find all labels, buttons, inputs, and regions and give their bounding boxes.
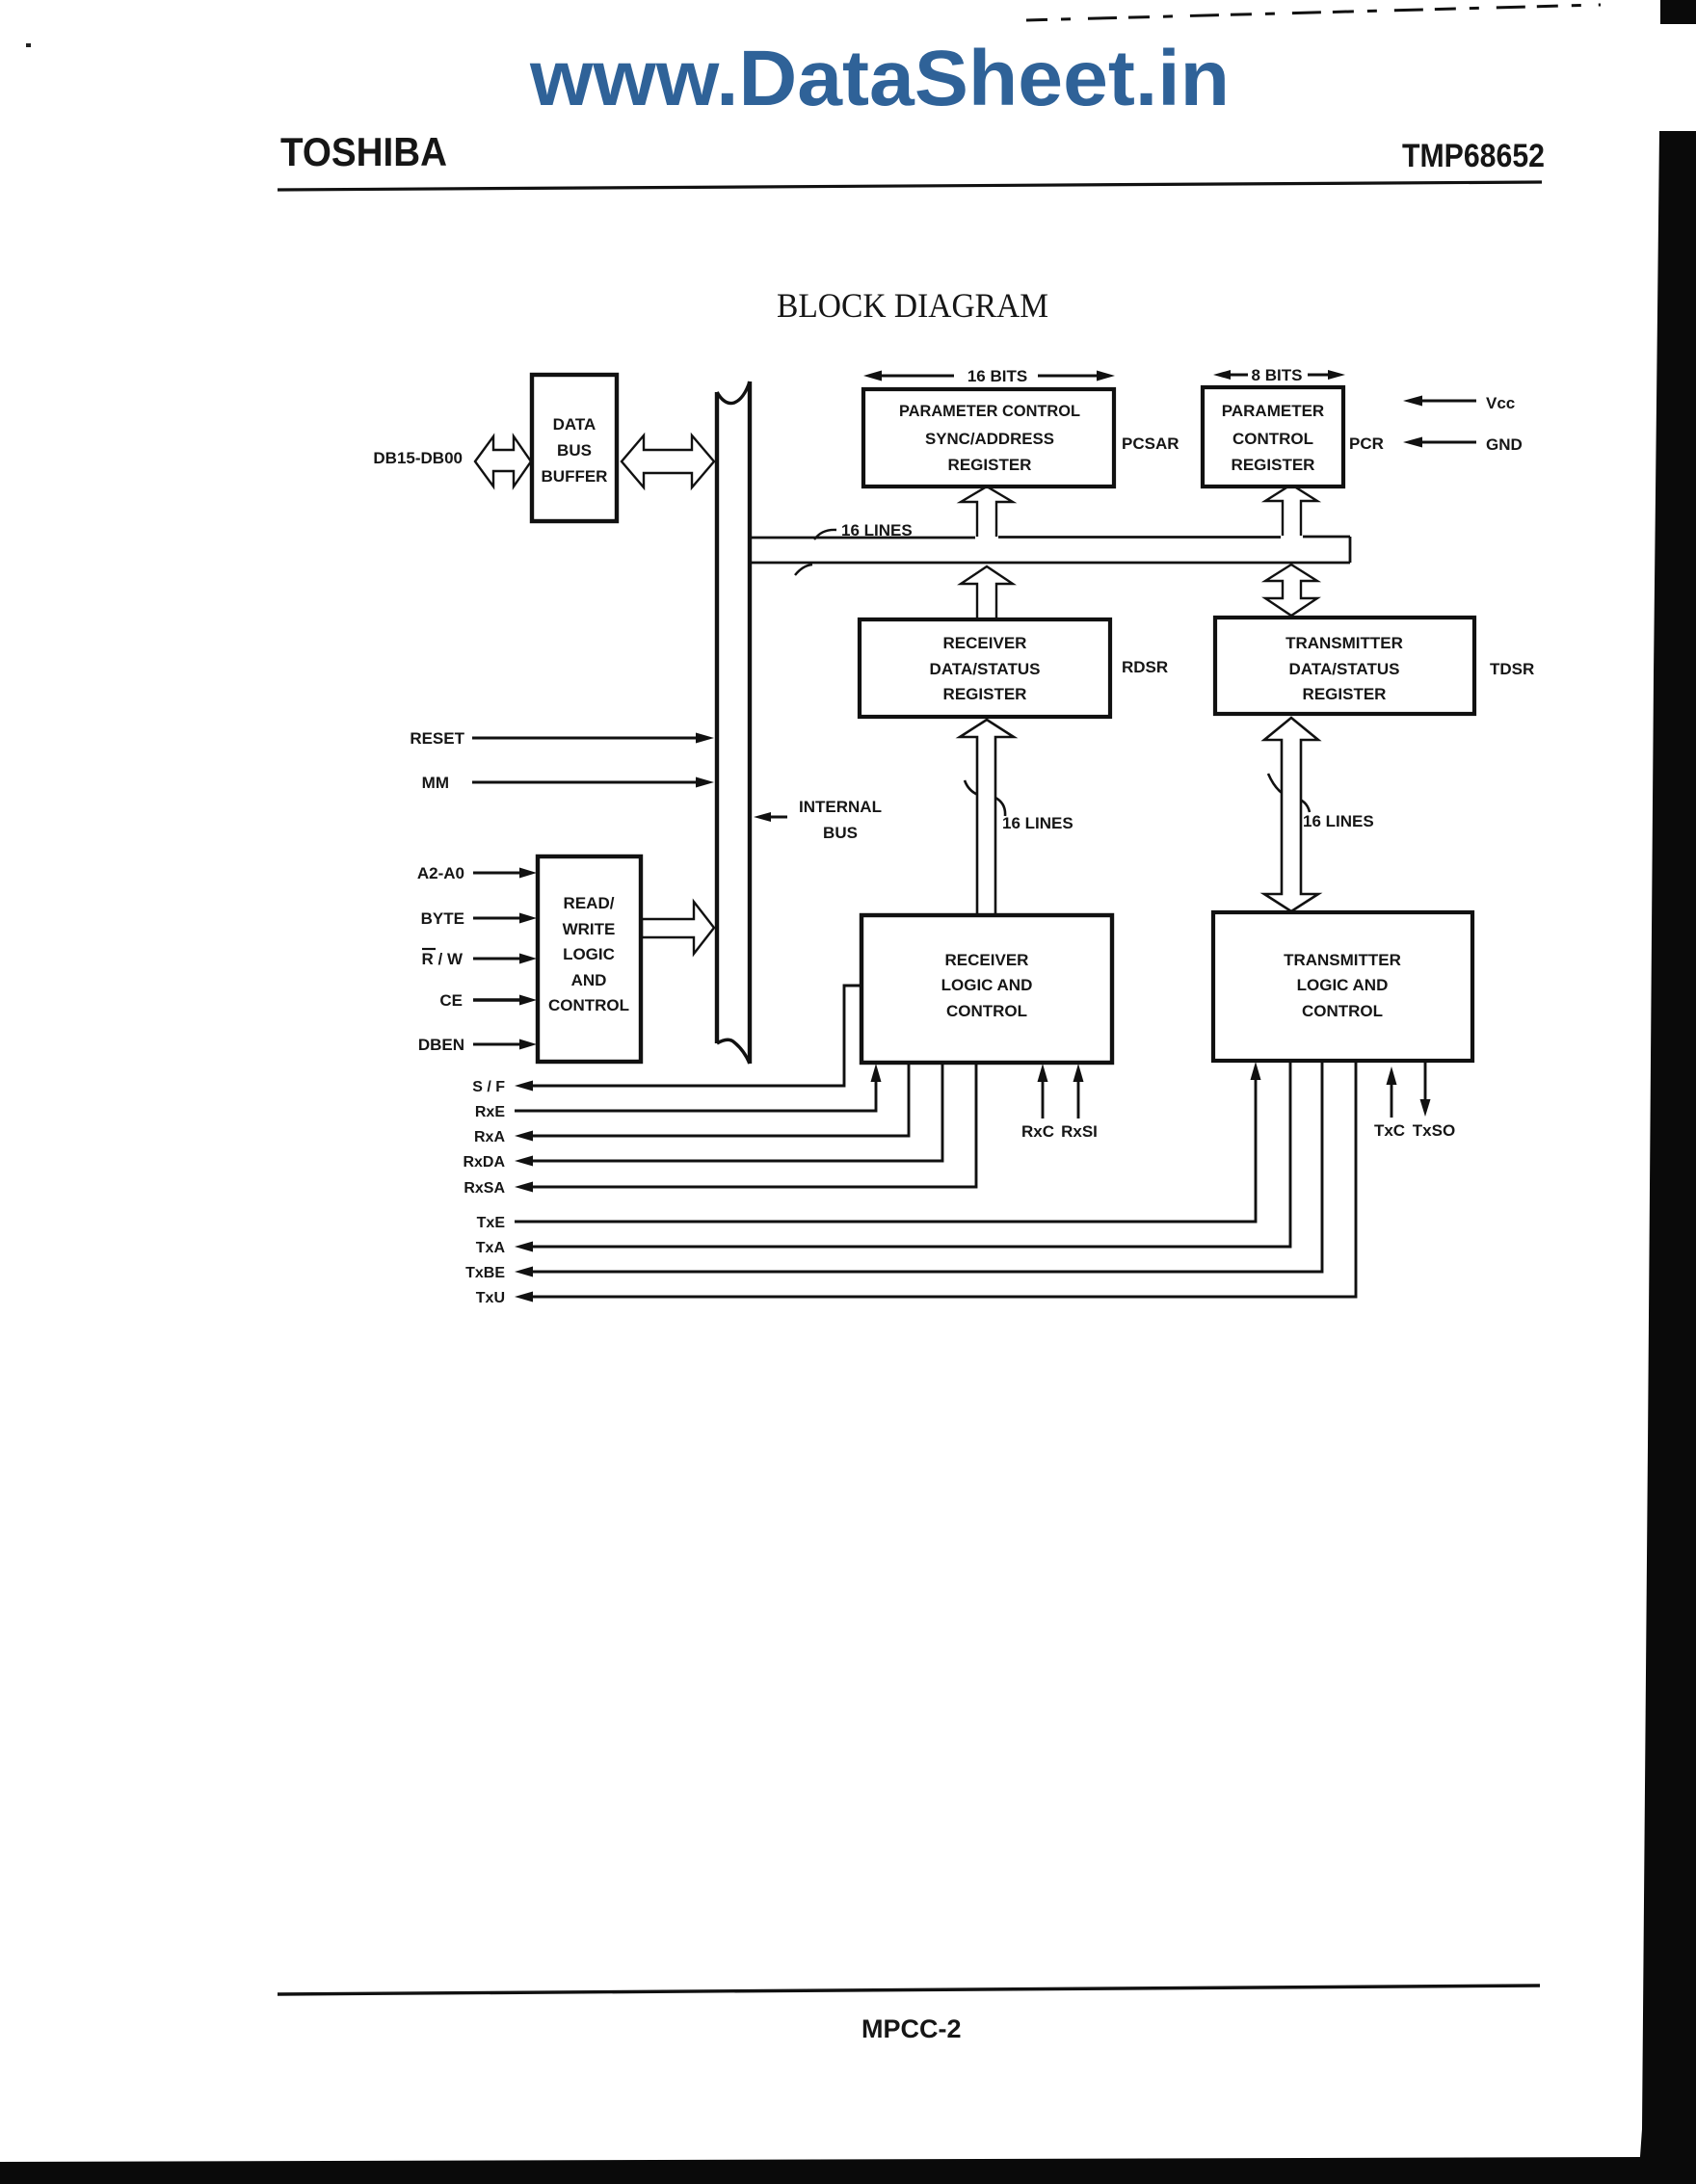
hollow arrow bus-TDSR double — [1265, 565, 1317, 616]
arrowhead TxU left — [515, 1292, 533, 1303]
svg-text:PCSAR: PCSAR — [1122, 434, 1179, 453]
top scan dashes — [1026, 5, 1601, 20]
svg-text:DATA/STATUS: DATA/STATUS — [1289, 660, 1400, 678]
svg-text:MPCC-2: MPCC-2 — [861, 2014, 962, 2043]
svg-text:TxA: TxA — [476, 1240, 506, 1256]
svg-text:TxC: TxC — [1374, 1121, 1405, 1140]
svg-text:www.DataSheet.in: www.DataSheet.in — [529, 35, 1230, 122]
svg-text:R / W: R / W — [422, 950, 464, 968]
internal bus top curve — [717, 382, 750, 404]
svg-text:RESET: RESET — [410, 729, 464, 748]
box RDSR — [860, 619, 1110, 717]
arrowhead RxE up — [871, 1064, 882, 1082]
right edge black bar — [1660, 0, 1696, 24]
svg-text:RxSI: RxSI — [1061, 1122, 1098, 1141]
wire TxC — [1391, 1081, 1393, 1118]
svg-text:CONTROL: CONTROL — [548, 996, 629, 1014]
arrowhead internal-bus-pointer left — [754, 812, 771, 822]
arrowhead Vcc left — [1403, 396, 1422, 407]
svg-text:LOGIC AND: LOGIC AND — [941, 976, 1033, 994]
arrowhead 8bits right — [1328, 370, 1345, 380]
svg-text:TOSHIBA: TOSHIBA — [280, 129, 447, 174]
hollow arrow bus to PCR up — [1265, 485, 1317, 536]
wire RxDA — [532, 1064, 942, 1161]
arrowhead S/F left — [515, 1081, 533, 1092]
svg-text:TRANSMITTER: TRANSMITTER — [1285, 634, 1403, 652]
horizontal 16-lines bus top line — [752, 537, 1350, 538]
svg-text:REGISTER: REGISTER — [948, 456, 1032, 474]
svg-text:REGISTER: REGISTER — [943, 685, 1027, 703]
internal bus bottom curve — [717, 1039, 750, 1064]
arrowhead RxSI up — [1073, 1064, 1084, 1082]
wire RxE — [515, 1081, 876, 1111]
svg-text:REGISTER: REGISTER — [1303, 685, 1387, 703]
svg-text:BLOCK DIAGRAM: BLOCK DIAGRAM — [777, 286, 1048, 325]
bus hook bottom — [795, 565, 812, 575]
bottom black strip — [0, 2157, 1642, 2184]
svg-text:BUFFER: BUFFER — [542, 467, 608, 486]
wire TxU — [532, 1062, 1356, 1297]
box TRANSMITTER LOGIC AND CONTROL — [1213, 912, 1472, 1061]
wire R/W — [473, 958, 522, 960]
svg-text:MM: MM — [422, 774, 449, 792]
wire GND — [1418, 441, 1476, 444]
arrowhead A2-A0 — [519, 868, 537, 879]
svg-text:16 LINES: 16 LINES — [841, 521, 913, 539]
wire 8bits right — [1308, 374, 1333, 377]
svg-text:LOGIC: LOGIC — [563, 945, 615, 963]
bus hook top — [814, 530, 836, 539]
svg-text:CONTROL: CONTROL — [1302, 1002, 1383, 1020]
wire 16bits right — [1038, 375, 1102, 378]
svg-text:DATA/STATUS: DATA/STATUS — [930, 660, 1041, 678]
arrowhead RESET — [696, 733, 714, 744]
svg-text:S / F: S / F — [472, 1079, 505, 1095]
wire RxSA — [532, 1064, 976, 1187]
svg-text:PARAMETER CONTROL: PARAMETER CONTROL — [899, 402, 1080, 420]
arrowhead RxSA left — [515, 1182, 533, 1193]
wire 16bits left — [877, 375, 954, 378]
svg-text:CONTROL: CONTROL — [946, 1002, 1027, 1020]
footer rule — [278, 1986, 1540, 1994]
svg-text:RECEIVER: RECEIVER — [943, 634, 1027, 652]
arrowhead RxC up — [1038, 1064, 1048, 1082]
svg-text:RxSA: RxSA — [464, 1180, 505, 1197]
svg-text:TxU: TxU — [476, 1290, 505, 1306]
arrowhead BYTE — [519, 913, 537, 924]
hollow arrow DBB to internal bus double — [622, 435, 714, 487]
box TDSR — [1215, 618, 1474, 714]
svg-text:DATA: DATA — [553, 415, 596, 434]
svg-text:TxBE: TxBE — [465, 1265, 505, 1281]
arrowhead TxE up — [1251, 1062, 1261, 1080]
hollow arrow TDSR-TLC double (16 lines) — [1264, 718, 1318, 911]
arrowhead 16bits right — [1097, 371, 1115, 382]
hollow arrow RDSR to bus up — [961, 566, 1013, 619]
box PCSAR — [863, 389, 1114, 487]
box PCR — [1203, 387, 1343, 487]
svg-text:CONTROL: CONTROL — [1232, 430, 1313, 448]
svg-text:16 LINES: 16 LINES — [1002, 814, 1073, 832]
box READ/WRITE LOGIC AND CONTROL — [538, 856, 641, 1062]
hollow arrow RW to bus right — [642, 902, 714, 954]
bus right end — [1349, 537, 1352, 563]
svg-text:INTERNAL: INTERNAL — [799, 798, 882, 816]
hollow arrow DB15 left double — [475, 436, 531, 487]
internal bus left line — [715, 392, 719, 1043]
svg-text:BYTE: BYTE — [421, 909, 464, 928]
arrowhead TxC up — [1387, 1066, 1397, 1085]
arrowhead RxA left — [515, 1131, 533, 1142]
wire Vcc — [1418, 400, 1476, 403]
arrowhead TxSO down — [1420, 1099, 1431, 1117]
svg-text:REGISTER: REGISTER — [1232, 456, 1315, 474]
hollow arrow bus to PCSAR up — [961, 487, 1013, 537]
svg-text:DBEN: DBEN — [418, 1036, 464, 1054]
wire RxC — [1042, 1079, 1045, 1118]
svg-text:TxSO: TxSO — [1413, 1121, 1455, 1140]
wire CE — [473, 998, 522, 1001]
svg-text:DB15-DB00: DB15-DB00 — [373, 449, 463, 467]
wire DBEN — [473, 1043, 522, 1046]
wire TxBE — [532, 1062, 1322, 1272]
svg-text:16 LINES: 16 LINES — [1303, 812, 1374, 830]
arrowhead GND left — [1403, 437, 1422, 448]
svg-text:TDSR: TDSR — [1490, 660, 1534, 678]
arrowhead DBEN — [519, 1039, 537, 1050]
svg-text:PCR: PCR — [1349, 434, 1384, 453]
box DATA BUS BUFFER — [532, 375, 617, 521]
wire TxE — [515, 1079, 1256, 1222]
arrowhead 8bits left — [1213, 370, 1231, 380]
svg-text:TxE: TxE — [477, 1215, 506, 1231]
svg-text:RxC: RxC — [1021, 1122, 1054, 1141]
arrowhead TxA left — [515, 1242, 533, 1252]
svg-text:WRITE: WRITE — [563, 920, 616, 938]
svg-text:16 BITS: 16 BITS — [967, 367, 1027, 385]
svg-text:A2-A0: A2-A0 — [417, 864, 464, 882]
box RECEIVER LOGIC AND CONTROL — [861, 915, 1112, 1063]
arrowhead CE — [519, 995, 537, 1006]
svg-text:RECEIVER: RECEIVER — [945, 951, 1029, 969]
bundle hook receiver 16lines — [965, 780, 1005, 816]
svg-text:TRANSMITTER: TRANSMITTER — [1284, 951, 1401, 969]
svg-text:RxA: RxA — [474, 1129, 505, 1145]
wire MM — [472, 781, 697, 784]
wire TxSO — [1424, 1063, 1427, 1104]
wire S/F — [532, 986, 860, 1086]
wire A2-A0 — [473, 872, 522, 875]
svg-text:PARAMETER: PARAMETER — [1222, 402, 1324, 420]
arrowhead TxBE left — [515, 1267, 533, 1277]
hollow arrow RLC to RDSR up (16 lines) — [960, 720, 1014, 915]
svg-text:Vcc: Vcc — [1486, 394, 1515, 412]
wire internal-bus-pointer — [766, 816, 787, 819]
wire BYTE — [473, 917, 522, 920]
wire RESET — [472, 737, 697, 740]
header rule — [278, 182, 1542, 190]
wire TxA — [532, 1062, 1290, 1247]
horizontal 16-lines bus bottom line — [752, 562, 1350, 565]
bundle hook transmitter 16lines — [1268, 774, 1310, 812]
svg-text:BUS: BUS — [557, 441, 592, 460]
svg-text:RxDA: RxDA — [463, 1154, 505, 1171]
svg-text:RxE: RxE — [475, 1104, 505, 1120]
svg-text:BUS: BUS — [823, 824, 858, 842]
arrowhead R/W — [519, 954, 537, 964]
wire RxA — [532, 1064, 909, 1136]
svg-text:AND: AND — [571, 971, 607, 989]
svg-text:READ/: READ/ — [564, 894, 615, 912]
stray dot top-left — [26, 43, 31, 47]
svg-text:SYNC/ADDRESS: SYNC/ADDRESS — [925, 430, 1054, 448]
svg-text:CE: CE — [439, 991, 463, 1010]
svg-text:GND: GND — [1486, 435, 1523, 454]
wire 8bits left — [1226, 374, 1248, 377]
arrowhead MM — [696, 777, 714, 788]
wire RxSI — [1077, 1079, 1080, 1118]
svg-text:TMP68652: TMP68652 — [1402, 138, 1545, 174]
svg-text:8 BITS: 8 BITS — [1252, 366, 1303, 384]
arrowhead 16bits left — [863, 371, 882, 382]
internal bus right line — [748, 382, 752, 1064]
svg-text:RDSR: RDSR — [1122, 658, 1168, 676]
svg-text:LOGIC AND: LOGIC AND — [1297, 976, 1389, 994]
arrowhead RxDA left — [515, 1156, 533, 1167]
